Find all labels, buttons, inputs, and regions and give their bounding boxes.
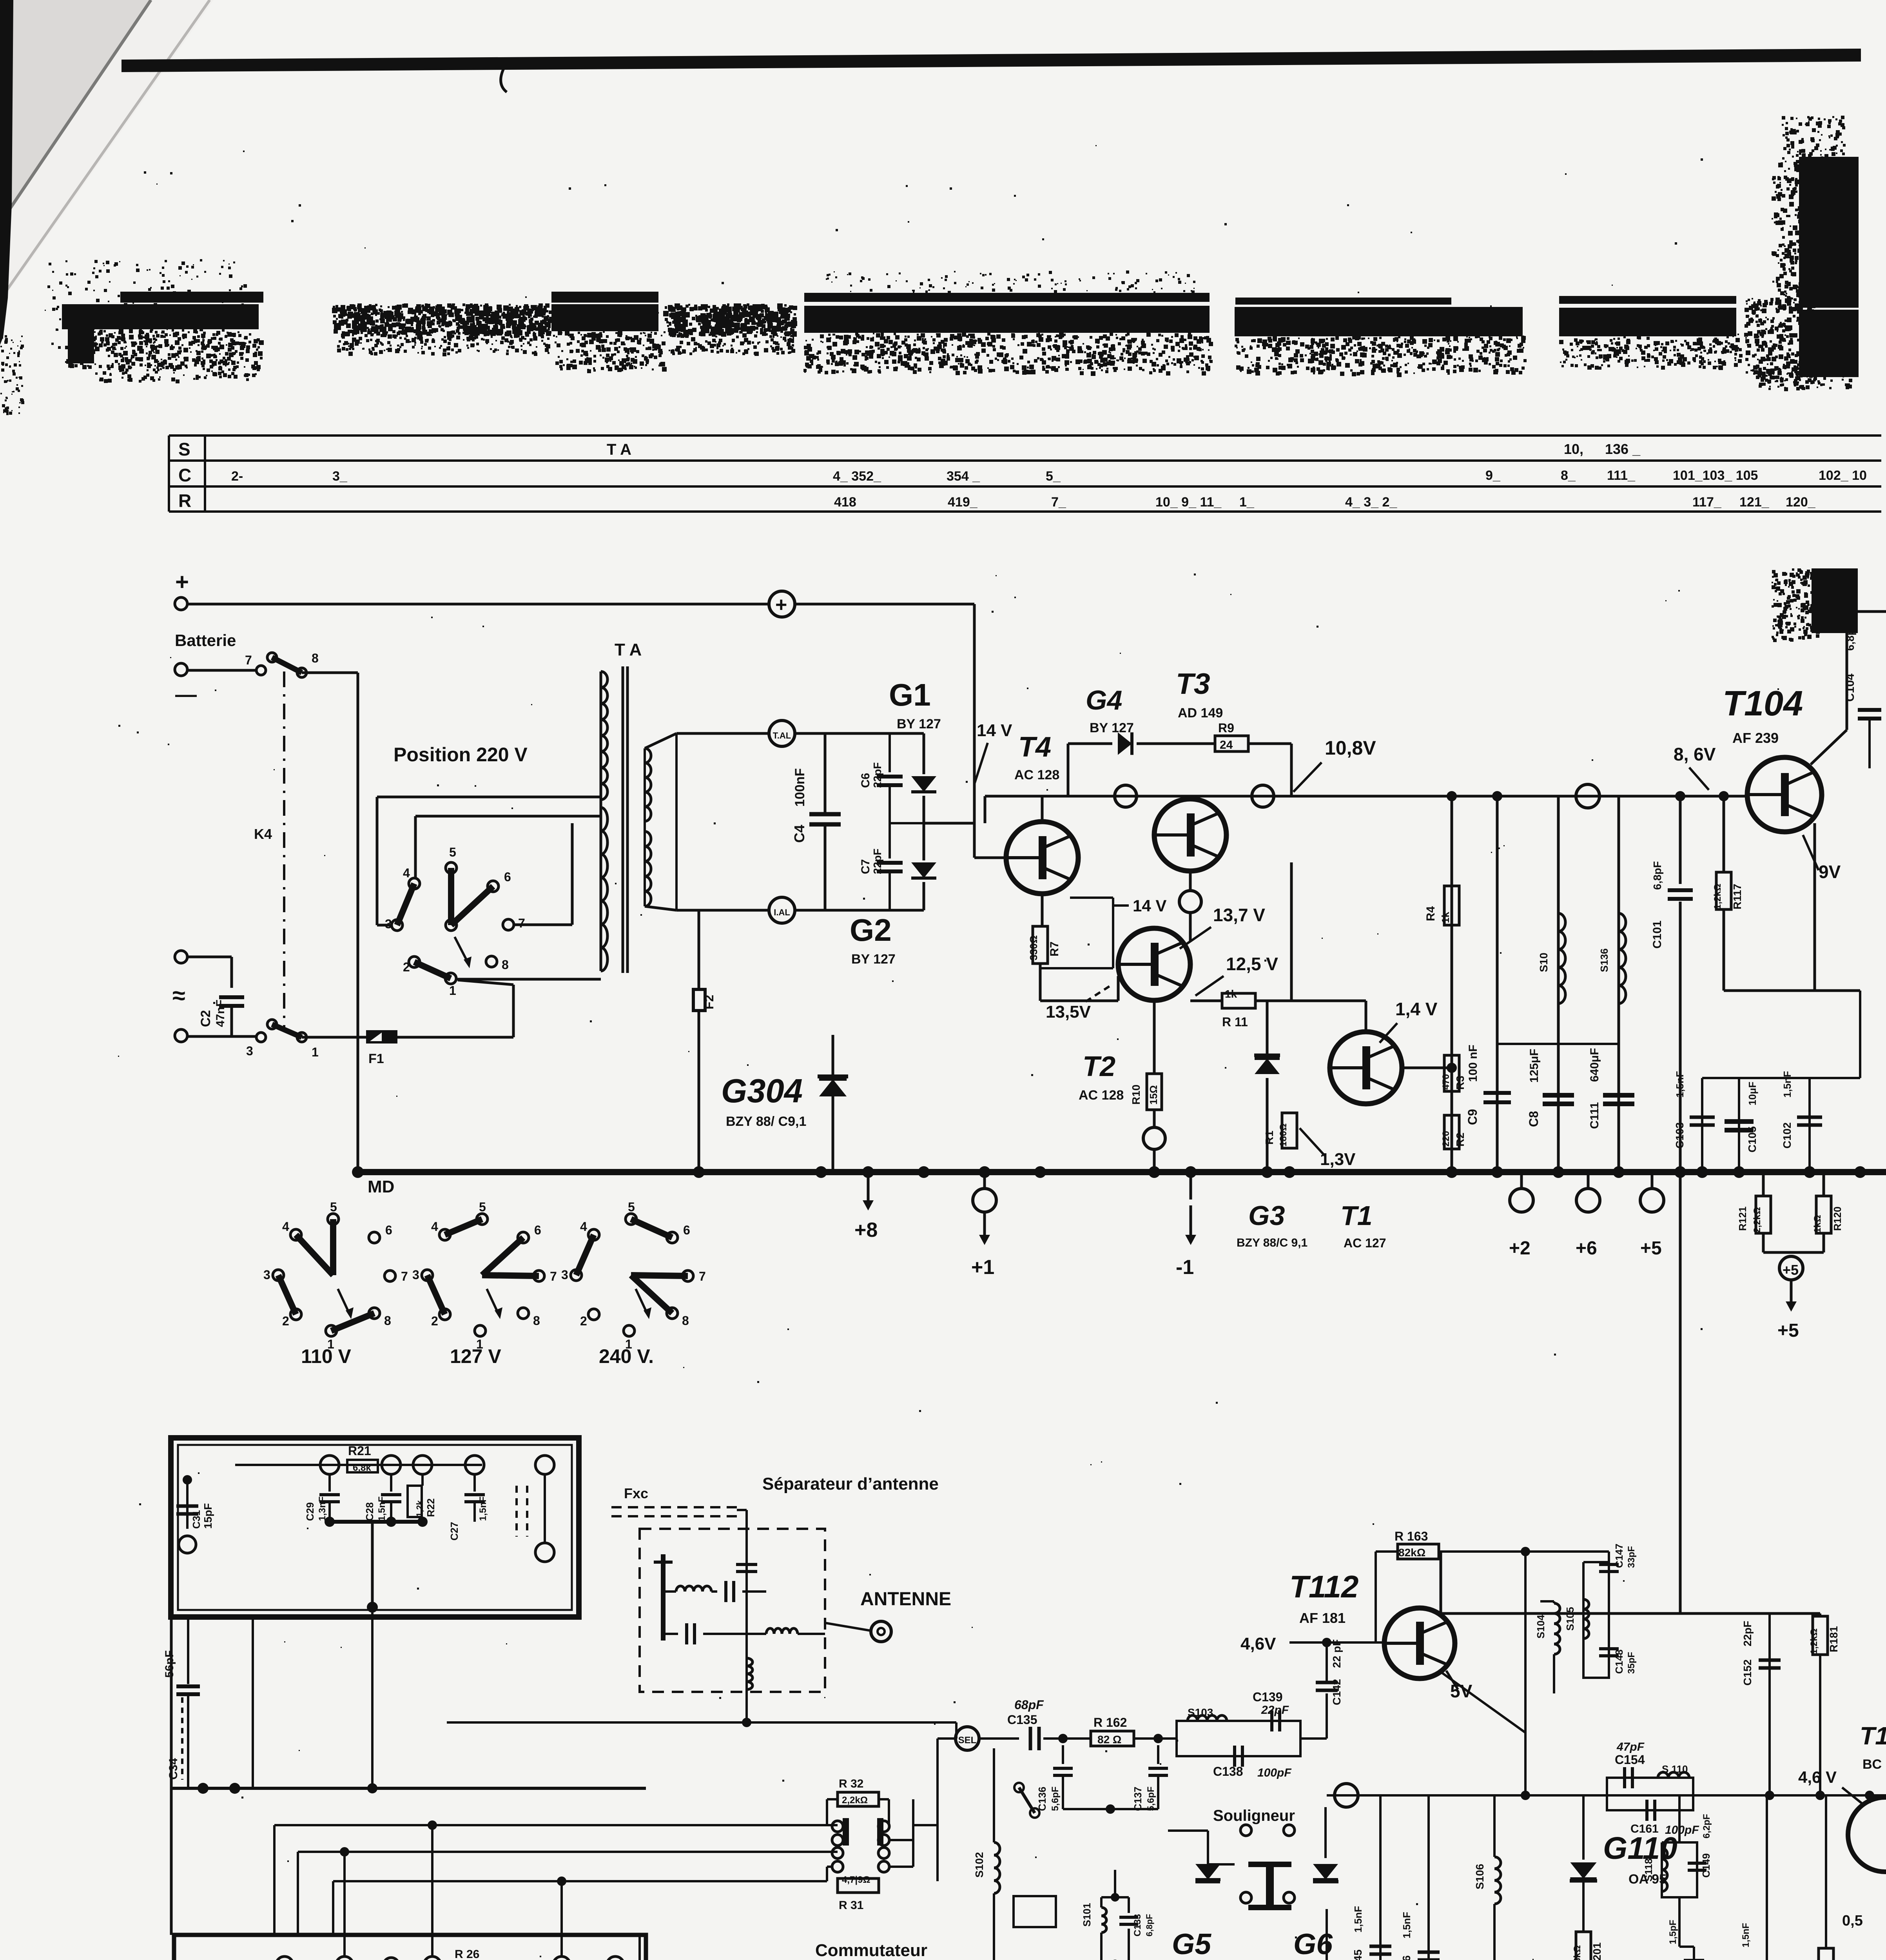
svg-text:Position 220 V: Position 220 V (394, 744, 528, 766)
svg-text:13,7 V: 13,7 V (1213, 905, 1265, 925)
svg-text:2: 2 (282, 1314, 289, 1328)
svg-text:F1: F1 (368, 1051, 384, 1066)
svg-text:1,2kΩ: 1,2kΩ (1809, 1628, 1819, 1654)
svg-text:4: 4 (431, 1220, 438, 1234)
svg-text:47pF: 47pF (1616, 1740, 1645, 1753)
svg-text:C7: C7 (859, 859, 872, 874)
svg-text:G1: G1 (889, 677, 931, 712)
svg-text:4,6V: 4,6V (1240, 1634, 1276, 1653)
svg-text:AF 239: AF 239 (1732, 730, 1779, 746)
svg-text:2: 2 (403, 960, 410, 974)
svg-text:35pF: 35pF (1626, 1652, 1637, 1674)
svg-text:1_: 1_ (1239, 495, 1255, 510)
svg-text:C152: C152 (1741, 1659, 1754, 1686)
svg-text:AC 128: AC 128 (1014, 768, 1059, 782)
svg-text:419_: 419_ (948, 495, 978, 510)
svg-text:4: 4 (580, 1220, 587, 1234)
svg-text:—: — (175, 682, 197, 706)
svg-text:R181: R181 (1828, 1626, 1840, 1652)
svg-text:BY 127: BY 127 (851, 952, 896, 967)
svg-text:C138: C138 (1213, 1764, 1243, 1779)
svg-text:10,: 10, (1564, 441, 1583, 457)
svg-text:S10: S10 (1538, 953, 1550, 972)
svg-text:T4: T4 (1018, 731, 1051, 763)
svg-text:3: 3 (412, 1268, 419, 1282)
svg-text:C27: C27 (448, 1522, 460, 1541)
svg-text:0,5: 0,5 (1842, 1913, 1863, 1929)
svg-text:3: 3 (263, 1268, 270, 1282)
svg-text:1,5nF: 1,5nF (1674, 1071, 1686, 1098)
svg-text:2: 2 (431, 1314, 438, 1328)
svg-text:4: 4 (403, 866, 410, 880)
svg-text:8: 8 (384, 1314, 391, 1328)
svg-text:4_ 3_ 2_: 4_ 3_ 2_ (1345, 495, 1397, 510)
svg-text:S102: S102 (973, 1852, 985, 1878)
svg-text:5_: 5_ (1046, 469, 1061, 484)
svg-text:C142: C142 (1331, 1679, 1343, 1705)
svg-text:Fxc: Fxc (624, 1485, 648, 1501)
svg-text:S 110: S 110 (1662, 1763, 1688, 1775)
svg-text:R21: R21 (348, 1444, 371, 1458)
svg-text:136 _: 136 _ (1605, 441, 1641, 457)
svg-text:220: 220 (1441, 1131, 1451, 1147)
svg-text:6,8kΩ: 6,8kΩ (1572, 1945, 1583, 1960)
svg-text:6,8k: 6,8k (353, 1463, 371, 1473)
svg-text:1,5nF: 1,5nF (377, 1496, 387, 1521)
svg-text:+5: +5 (1783, 1262, 1799, 1278)
svg-text:6,8pF: 6,8pF (1844, 622, 1856, 651)
svg-text:G4: G4 (1086, 685, 1122, 715)
svg-text:4_ 352_: 4_ 352_ (833, 469, 881, 484)
svg-text:F2: F2 (702, 995, 716, 1009)
svg-text:G3: G3 (1248, 1200, 1285, 1231)
svg-text:R120: R120 (1832, 1207, 1843, 1231)
svg-text:C105: C105 (1746, 1126, 1758, 1152)
svg-text:1,5nF: 1,5nF (1741, 1923, 1751, 1947)
svg-text:6,8pF: 6,8pF (1651, 861, 1663, 890)
svg-text:T104: T104 (1723, 684, 1803, 723)
svg-text:1,5pF: 1,5pF (1668, 1920, 1678, 1944)
svg-text:R 32: R 32 (839, 1777, 863, 1790)
svg-text:+1: +1 (971, 1256, 994, 1279)
svg-text:8: 8 (312, 651, 319, 665)
svg-text:S136: S136 (1598, 948, 1610, 972)
svg-text:R10: R10 (1130, 1085, 1142, 1105)
svg-text:AC 127: AC 127 (1344, 1236, 1386, 1250)
svg-text:T3: T3 (1176, 667, 1210, 700)
svg-text:22pF: 22pF (871, 762, 883, 788)
svg-text:4: 4 (282, 1220, 289, 1234)
svg-text:100 nF: 100 nF (1467, 1045, 1480, 1082)
svg-text:K4: K4 (254, 826, 272, 842)
svg-text:S101: S101 (1081, 1903, 1093, 1927)
svg-text:10,8V: 10,8V (1325, 737, 1376, 759)
svg-text:Batterie: Batterie (175, 631, 236, 650)
svg-text:33pF: 33pF (1626, 1546, 1637, 1568)
svg-text:BZY 88/C 9,1: BZY 88/C 9,1 (1237, 1236, 1308, 1249)
svg-text:14 V: 14 V (977, 721, 1012, 740)
svg-text:C145: C145 (1352, 1949, 1364, 1960)
svg-text:Séparateur d’antenne: Séparateur d’antenne (762, 1474, 939, 1494)
svg-text:C: C (178, 465, 191, 485)
svg-text:BY 127: BY 127 (1090, 720, 1134, 735)
svg-text:7: 7 (245, 653, 252, 667)
svg-text:ANTENNE: ANTENNE (860, 1589, 951, 1610)
svg-text:T A: T A (615, 640, 642, 659)
svg-text:AF 181: AF 181 (1299, 1610, 1346, 1626)
svg-text:640μF: 640μF (1588, 1048, 1601, 1082)
svg-text:1,5nF: 1,5nF (478, 1496, 488, 1521)
svg-text:+: + (775, 593, 787, 616)
svg-text:C8: C8 (1527, 1111, 1541, 1127)
svg-text:T.AL: T.AL (773, 731, 791, 740)
svg-text:6: 6 (683, 1223, 690, 1237)
svg-text:100nF: 100nF (792, 768, 807, 807)
svg-text:S106: S106 (1474, 1864, 1486, 1889)
svg-text:5: 5 (449, 845, 456, 859)
svg-text:G5: G5 (1172, 1927, 1211, 1960)
svg-text:R 162: R 162 (1094, 1715, 1127, 1730)
svg-text:S105: S105 (1564, 1607, 1576, 1631)
svg-text:≈: ≈ (172, 982, 185, 1009)
svg-text:C9: C9 (1465, 1109, 1480, 1125)
svg-text:1k: 1k (1225, 988, 1237, 1000)
svg-text:C135: C135 (1007, 1713, 1037, 1727)
svg-text:1: 1 (312, 1045, 319, 1059)
svg-text:2-: 2- (231, 469, 243, 484)
svg-text:121_: 121_ (1739, 495, 1770, 510)
svg-text:111_: 111_ (1607, 468, 1636, 483)
svg-text:C154: C154 (1615, 1753, 1645, 1767)
svg-text:C31: C31 (190, 1510, 202, 1529)
svg-text:180Ω: 180Ω (1278, 1123, 1289, 1147)
svg-text:3_: 3_ (332, 469, 348, 484)
svg-text:MD: MD (368, 1177, 394, 1196)
svg-text:2,2kΩ: 2,2kΩ (1752, 1207, 1763, 1233)
svg-text:S104: S104 (1535, 1615, 1547, 1639)
svg-text:6: 6 (385, 1223, 392, 1237)
svg-text:T2: T2 (1083, 1051, 1115, 1082)
svg-text:1: 1 (449, 984, 456, 998)
svg-text:3: 3 (561, 1268, 568, 1282)
svg-text:+6: +6 (1576, 1238, 1597, 1259)
svg-text:C101: C101 (1651, 920, 1664, 949)
svg-text:T112: T112 (1289, 1569, 1358, 1604)
svg-text:101_103_ 105: 101_103_ 105 (1673, 468, 1758, 483)
svg-text:1,5nF: 1,5nF (1352, 1906, 1364, 1933)
svg-text:R121: R121 (1737, 1207, 1748, 1231)
svg-text:+2: +2 (1509, 1238, 1531, 1259)
svg-text:15Ω: 15Ω (1148, 1085, 1159, 1105)
svg-text:5: 5 (628, 1200, 635, 1214)
svg-text:102_ 10: 102_ 10 (1819, 468, 1867, 483)
svg-text:470: 470 (1441, 1074, 1451, 1090)
svg-text:R1: R1 (1263, 1131, 1275, 1145)
svg-text:AC 128: AC 128 (1079, 1088, 1124, 1103)
svg-text:6,2pF: 6,2pF (1701, 1814, 1712, 1838)
svg-text:-1: -1 (1176, 1256, 1194, 1279)
svg-text:Commutateur: Commutateur (815, 1941, 927, 1960)
svg-text:8: 8 (533, 1314, 540, 1328)
svg-text:1,2kΩ: 1,2kΩ (1712, 884, 1723, 909)
svg-text:BZY 88/ C9,1: BZY 88/ C9,1 (726, 1114, 806, 1129)
svg-text:R7: R7 (1048, 942, 1061, 956)
svg-text:7: 7 (401, 1269, 408, 1283)
svg-text:354 _: 354 _ (947, 469, 980, 484)
svg-text:125μF: 125μF (1528, 1049, 1541, 1083)
svg-text:418: 418 (834, 495, 856, 510)
svg-text:82kΩ: 82kΩ (1398, 1546, 1425, 1559)
svg-text:C149: C149 (1700, 1853, 1712, 1878)
svg-text:9V: 9V (1819, 862, 1841, 882)
svg-text:2,2kΩ: 2,2kΩ (842, 1795, 868, 1806)
svg-text:15pF: 15pF (202, 1503, 214, 1529)
svg-text:C2: C2 (198, 1010, 213, 1027)
svg-text:R117: R117 (1731, 884, 1743, 909)
svg-text:Souligneur: Souligneur (1213, 1807, 1295, 1824)
svg-text:C133: C133 (1132, 1914, 1143, 1936)
svg-text:5: 5 (479, 1200, 486, 1214)
svg-text:+5: +5 (1640, 1238, 1662, 1259)
svg-text:22pF: 22pF (1741, 1621, 1754, 1646)
svg-text:1kΩ: 1kΩ (1812, 1215, 1823, 1233)
svg-text:7: 7 (550, 1269, 557, 1283)
svg-text:1,2k: 1,2k (415, 1500, 424, 1517)
svg-text:330Ω: 330Ω (1028, 935, 1039, 960)
svg-text:T A: T A (607, 441, 631, 458)
svg-text:56pF: 56pF (163, 1650, 176, 1678)
svg-text:C147: C147 (1613, 1544, 1625, 1568)
svg-text:C28: C28 (364, 1502, 375, 1521)
svg-text:1,3V: 1,3V (1320, 1150, 1356, 1169)
svg-text:13,5V: 13,5V (1046, 1002, 1091, 1022)
svg-text:S: S (178, 439, 190, 459)
svg-text:C148: C148 (1613, 1650, 1625, 1674)
svg-text:T1: T1 (1340, 1200, 1373, 1231)
svg-text:1k: 1k (1440, 912, 1451, 923)
svg-text:+: + (175, 569, 189, 595)
svg-text:100pF: 100pF (1257, 1766, 1291, 1779)
svg-text:8: 8 (502, 958, 509, 972)
svg-text:BY 127: BY 127 (897, 717, 941, 731)
svg-text:3: 3 (246, 1044, 253, 1058)
svg-text:68pF: 68pF (1014, 1698, 1044, 1712)
svg-text:5,6pF: 5,6pF (1050, 1786, 1061, 1811)
svg-text:8_: 8_ (1561, 468, 1576, 483)
svg-text:1,5nF: 1,5nF (1401, 1912, 1413, 1938)
svg-text:C136: C136 (1036, 1787, 1048, 1811)
svg-text:C6: C6 (859, 773, 872, 788)
svg-text:R 11: R 11 (1222, 1015, 1248, 1029)
svg-text:R 31: R 31 (839, 1899, 863, 1912)
svg-text:9_: 9_ (1485, 468, 1501, 483)
svg-text:S118: S118 (1643, 1858, 1654, 1882)
svg-text:240 V.: 240 V. (599, 1345, 654, 1367)
svg-text:R2: R2 (1454, 1132, 1466, 1147)
svg-text:6: 6 (504, 870, 511, 884)
svg-text:22pF: 22pF (871, 849, 883, 874)
svg-text:14 V: 14 V (1133, 897, 1166, 915)
svg-text:7: 7 (518, 916, 525, 930)
svg-text:10_ 9_ 11_: 10_ 9_ 11_ (1155, 495, 1222, 510)
svg-text:R201: R201 (1591, 1942, 1603, 1960)
svg-text:8, 6V: 8, 6V (1674, 744, 1716, 764)
svg-text:24: 24 (1220, 739, 1233, 751)
svg-text:R22: R22 (425, 1498, 437, 1517)
svg-text:82 Ω: 82 Ω (1097, 1733, 1121, 1746)
svg-text:C34: C34 (167, 1758, 180, 1780)
svg-text:R 163: R 163 (1395, 1529, 1428, 1543)
svg-text:R 26: R 26 (455, 1948, 479, 1960)
svg-text:+8: +8 (854, 1219, 878, 1241)
svg-text:C104: C104 (1844, 673, 1857, 702)
svg-text:C137: C137 (1132, 1787, 1144, 1811)
svg-text:BC: BC (1862, 1757, 1882, 1772)
svg-text:47nF: 47nF (214, 1000, 227, 1027)
svg-text:C4: C4 (791, 825, 807, 843)
svg-text:T1: T1 (1860, 1722, 1886, 1750)
svg-text:C146: C146 (1400, 1955, 1413, 1960)
svg-text:AD 149: AD 149 (1178, 706, 1223, 720)
svg-text:4,7|9Ω: 4,7|9Ω (842, 1875, 870, 1885)
svg-text:R9: R9 (1218, 721, 1234, 735)
svg-text:+5: +5 (1777, 1320, 1799, 1341)
svg-text:7: 7 (699, 1269, 706, 1283)
svg-text:C29: C29 (304, 1502, 316, 1521)
svg-text:22pF: 22pF (1261, 1704, 1289, 1717)
svg-text:12,5 V: 12,5 V (1226, 954, 1278, 974)
svg-text:10μF: 10μF (1746, 1082, 1758, 1105)
svg-text:G2: G2 (850, 913, 892, 947)
svg-text:117_: 117_ (1692, 495, 1722, 510)
svg-text:1,5nF: 1,5nF (1781, 1071, 1793, 1098)
svg-text:C139: C139 (1253, 1690, 1283, 1704)
svg-text:110 V: 110 V (301, 1345, 352, 1367)
svg-text:120_: 120_ (1786, 495, 1816, 510)
svg-text:6,8pF: 6,8pF (1144, 1914, 1154, 1936)
svg-text:8: 8 (682, 1314, 689, 1328)
svg-text:127 V: 127 V (450, 1345, 501, 1367)
svg-text:7_: 7_ (1051, 495, 1066, 510)
svg-text:R: R (178, 490, 191, 511)
svg-text:1,4 V: 1,4 V (1395, 999, 1438, 1019)
svg-text:C111: C111 (1588, 1102, 1601, 1129)
svg-text:6: 6 (534, 1223, 541, 1237)
svg-text:G304: G304 (721, 1073, 803, 1110)
svg-text:S103: S103 (1188, 1706, 1213, 1719)
svg-text:R3: R3 (1454, 1076, 1466, 1090)
svg-text:C102: C102 (1781, 1122, 1793, 1149)
svg-text:SEL: SEL (958, 1735, 977, 1746)
svg-text:I.AL: I.AL (774, 907, 790, 917)
svg-text:5,6pF: 5,6pF (1146, 1786, 1156, 1811)
svg-text:2: 2 (580, 1314, 587, 1328)
svg-text:1,3nF: 1,3nF (317, 1496, 328, 1521)
svg-text:R4: R4 (1424, 906, 1437, 921)
svg-text:5: 5 (330, 1200, 337, 1214)
svg-text:4,6 V: 4,6 V (1798, 1768, 1837, 1786)
svg-text:C103: C103 (1674, 1122, 1686, 1149)
